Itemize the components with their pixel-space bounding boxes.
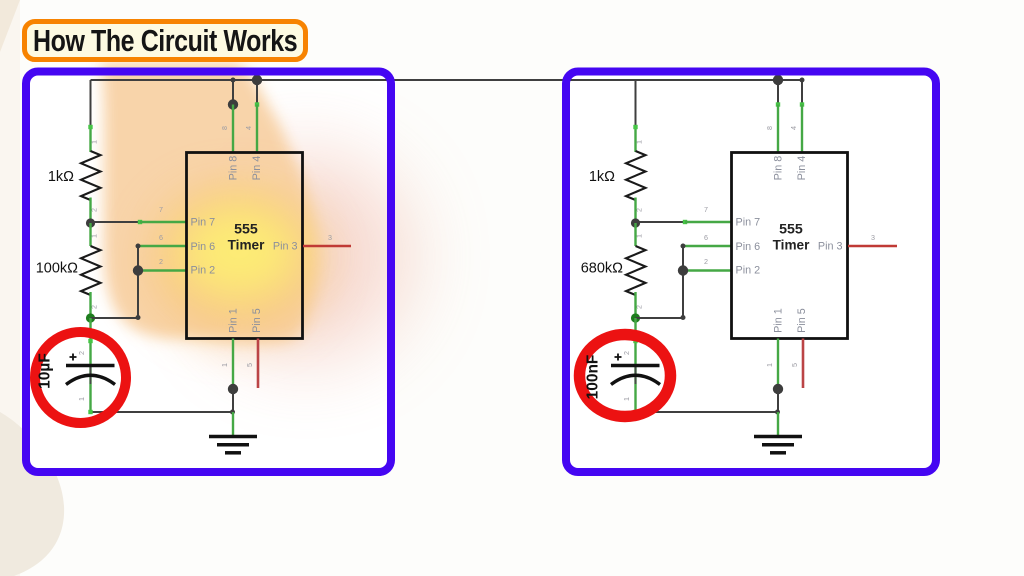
wire green stub R3 bottom xyxy=(634,198,636,224)
wire vertical trig-thresh right xyxy=(682,246,684,318)
svg-text:1kΩ: 1kΩ xyxy=(589,169,615,185)
op-amp U1 555 timer box xyxy=(187,153,303,339)
wire green stub R2 top xyxy=(89,223,91,246)
svg-text:6: 6 xyxy=(704,233,708,242)
node corner dot right xyxy=(681,315,686,320)
svg-text:Pin 4: Pin 4 xyxy=(796,156,808,181)
panel right purple border xyxy=(566,72,936,473)
wire pin5 red right xyxy=(802,339,805,389)
node tick cap bottom xyxy=(88,410,92,414)
wire pin4 drop dark right xyxy=(801,80,803,105)
svg-text:Pin 8: Pin 8 xyxy=(772,156,784,181)
resistor R4 680k zigzag xyxy=(626,246,646,295)
node junction R1-R2 xyxy=(86,218,95,227)
wire vertical trig-thresh xyxy=(137,246,139,318)
wire pin5 red xyxy=(257,339,260,389)
node pin2 junction big dot right xyxy=(678,265,688,275)
node tick R1 top xyxy=(88,125,92,129)
glow main peach blob xyxy=(100,62,317,342)
wire resistor drop left xyxy=(90,80,92,127)
node junction R3-R4 xyxy=(631,218,640,227)
wire pin6 green right xyxy=(683,245,732,247)
wire pin2 green xyxy=(138,269,187,271)
glow yellow core xyxy=(177,204,301,300)
wire pin7 green right xyxy=(685,221,732,223)
node tick pin4 xyxy=(255,102,259,106)
background cream blob bottom-left xyxy=(0,412,64,576)
wire pin7 from junction dark right xyxy=(636,221,686,223)
node tick pin4 right xyxy=(800,102,804,106)
node vcc dot small right xyxy=(800,78,805,83)
panel left white background xyxy=(26,72,391,473)
wire pin4 green right xyxy=(801,105,803,153)
wire cap gap dark left xyxy=(90,366,92,384)
svg-text:4: 4 xyxy=(789,126,798,130)
node pin6 end dot xyxy=(136,244,141,249)
highlight circle C1 xyxy=(35,332,126,423)
node pin6 end dot right xyxy=(681,244,686,249)
resistor R1 1k zigzag xyxy=(81,151,101,200)
svg-text:Pin 3: Pin 3 xyxy=(818,240,843,252)
wire pin1 dark right xyxy=(777,389,779,412)
svg-text:8: 8 xyxy=(220,126,229,130)
wire pin8 drop dark xyxy=(232,80,234,105)
svg-text:Pin 5: Pin 5 xyxy=(796,308,808,333)
svg-text:Pin 7: Pin 7 xyxy=(191,216,216,228)
wire pin3 red right xyxy=(848,245,897,248)
node tick R3 top xyxy=(633,125,637,129)
ground symbol left xyxy=(209,437,257,453)
svg-text:3: 3 xyxy=(871,233,875,242)
wire junction to corner horizontal right xyxy=(636,317,684,319)
capacitor C1 top plate xyxy=(66,364,115,367)
wire cap gap dark right xyxy=(635,366,637,384)
wire pin8 green right xyxy=(777,105,779,153)
background cream wedge top-left corner xyxy=(0,0,20,52)
svg-text:1: 1 xyxy=(90,140,99,144)
node vcc pin8 big dot right xyxy=(773,75,783,85)
svg-text:555: 555 xyxy=(234,222,258,238)
wire green stub R4 bottom xyxy=(634,292,636,318)
node corner dot xyxy=(136,315,141,320)
svg-text:Timer: Timer xyxy=(228,238,265,253)
svg-text:1: 1 xyxy=(220,363,229,367)
node tick pin7 right xyxy=(683,220,687,224)
svg-text:555: 555 xyxy=(779,222,803,238)
highlight circle C2 xyxy=(580,335,671,417)
svg-text:3: 3 xyxy=(328,233,332,242)
background pale cream column left xyxy=(0,0,20,576)
op-amp U2 555 timer box xyxy=(732,153,848,339)
svg-text:Pin 2: Pin 2 xyxy=(191,265,216,277)
wire gnd stub green xyxy=(232,412,234,436)
node corner gnd dot xyxy=(230,410,235,415)
svg-text:1: 1 xyxy=(635,140,644,144)
node vcc dot small xyxy=(231,78,236,83)
node pin2 junction big dot xyxy=(133,265,143,275)
wire bottom horizontal right xyxy=(636,411,778,413)
wire pin1 green right xyxy=(777,339,779,387)
node junction R2-C1 xyxy=(86,313,95,322)
wire pin8 drop dark right xyxy=(777,80,779,105)
svg-text:5: 5 xyxy=(245,363,254,367)
wire pin3 red xyxy=(303,245,351,248)
glow halo wide xyxy=(203,152,411,360)
wire pin7 from junction dark xyxy=(91,221,141,223)
wire green stub R4 top xyxy=(634,223,636,246)
svg-text:4: 4 xyxy=(244,126,253,130)
resistor R3 1k zigzag xyxy=(626,151,646,200)
wire junction to corner horizontal xyxy=(91,317,139,319)
svg-text:Pin 6: Pin 6 xyxy=(191,241,216,253)
svg-text:1: 1 xyxy=(622,397,631,401)
svg-text:2: 2 xyxy=(704,257,708,266)
svg-text:1: 1 xyxy=(765,363,774,367)
wire green stub R1 top xyxy=(89,126,91,152)
svg-text:1: 1 xyxy=(77,397,86,401)
title box xyxy=(22,19,308,62)
wire pin4 green xyxy=(256,105,258,153)
svg-text:Pin 3: Pin 3 xyxy=(273,240,298,252)
svg-text:Pin 1: Pin 1 xyxy=(227,308,239,333)
svg-text:Pin 8: Pin 8 xyxy=(227,156,239,181)
wire VCC top rail xyxy=(91,79,803,81)
svg-text:2: 2 xyxy=(159,257,163,266)
node vcc pin4 big dot xyxy=(252,75,262,85)
wire cap vertical green right xyxy=(634,318,636,412)
node tick cap top xyxy=(88,339,92,343)
wire green stub R3 top xyxy=(634,126,636,152)
wire resistor drop right xyxy=(635,80,637,127)
svg-text:Pin 4: Pin 4 xyxy=(251,156,263,181)
svg-text:6: 6 xyxy=(159,233,163,242)
node tick pin7 xyxy=(138,220,142,224)
wire cap vertical green xyxy=(89,318,91,412)
wire pin7 green xyxy=(140,221,187,223)
wire pin6 green xyxy=(138,245,187,247)
svg-text:2: 2 xyxy=(77,351,86,355)
node pin8 big dot xyxy=(228,99,238,109)
wire gnd stub green right xyxy=(777,412,779,436)
svg-text:Pin 6: Pin 6 xyxy=(736,241,761,253)
node pin1 big dot right xyxy=(773,384,783,394)
node tick cap bottom right xyxy=(633,410,637,414)
svg-text:1kΩ: 1kΩ xyxy=(48,169,74,185)
capacitor C1 curved plate xyxy=(66,375,115,384)
svg-text:5: 5 xyxy=(790,363,799,367)
wire green stub R2 bottom xyxy=(89,292,91,318)
node pin1 big dot xyxy=(228,384,238,394)
wire pin1 green xyxy=(232,339,234,387)
wire pin2 green right xyxy=(683,269,732,271)
node junction R4-C2 xyxy=(631,313,640,322)
glow mid orange ring xyxy=(148,184,324,340)
node tick pin8 right xyxy=(776,102,780,106)
svg-text:7: 7 xyxy=(159,205,163,214)
svg-text:Pin 7: Pin 7 xyxy=(736,216,761,228)
panel right white background xyxy=(566,72,936,473)
svg-text:8: 8 xyxy=(765,126,774,130)
resistor R2 100k zigzag xyxy=(81,246,101,295)
capacitor C2 top plate xyxy=(611,364,660,367)
svg-text:100nF: 100nF xyxy=(585,355,602,400)
wire bottom horizontal xyxy=(91,411,233,413)
svg-text:Timer: Timer xyxy=(773,238,810,253)
capacitor C2 curved plate xyxy=(611,375,660,384)
svg-text:10µF: 10µF xyxy=(37,353,54,389)
panel left purple border xyxy=(26,72,391,473)
capacitor C1 plus sign xyxy=(70,354,77,361)
svg-text:7: 7 xyxy=(704,205,708,214)
svg-text:2: 2 xyxy=(622,351,631,355)
capacitor C2 plus sign xyxy=(615,354,622,361)
ground symbol right xyxy=(754,437,802,453)
wire pin1 dark xyxy=(232,389,234,412)
node tick cap top right xyxy=(633,339,637,343)
svg-text:Pin 2: Pin 2 xyxy=(736,265,761,277)
svg-text:100kΩ: 100kΩ xyxy=(36,261,78,277)
wire green stub R1 bottom xyxy=(89,198,91,224)
svg-text:Pin 1: Pin 1 xyxy=(772,308,784,333)
wire pin8 green xyxy=(232,105,234,153)
svg-text:680kΩ: 680kΩ xyxy=(581,261,623,277)
node corner gnd dot right xyxy=(775,410,780,415)
wire pin4 drop dark xyxy=(256,80,258,105)
svg-text:Pin 5: Pin 5 xyxy=(251,308,263,333)
